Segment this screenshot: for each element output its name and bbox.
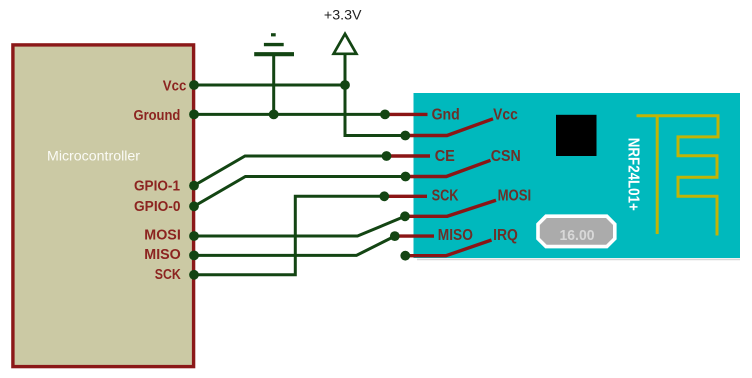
svg-text:CE: CE bbox=[435, 148, 455, 165]
node module MOSI bbox=[400, 211, 410, 221]
junction ground symbol / Ground wire bbox=[269, 110, 279, 120]
pin line Gnd bbox=[385, 113, 428, 116]
pin line MISO bbox=[395, 234, 434, 237]
svg-text:Vcc: Vcc bbox=[493, 107, 518, 124]
svg-text:SCK: SCK bbox=[155, 267, 181, 283]
svg-text:NRF24L01+: NRF24L01+ bbox=[624, 138, 641, 211]
microcontroller U1 body bbox=[13, 45, 194, 367]
svg-text:MOSI: MOSI bbox=[144, 228, 181, 244]
RF chip (black) bbox=[556, 115, 597, 156]
svg-text:MISO: MISO bbox=[438, 227, 473, 244]
node module CE bbox=[382, 151, 392, 161]
wire Vcc: U1 Vcc to +3.3V stem bbox=[195, 84, 345, 87]
node module Vcc bbox=[400, 131, 410, 141]
node module Gnd bbox=[380, 110, 390, 120]
wire GPIO-0 to CSN bbox=[194, 177, 406, 207]
wire +3.3V stem to module Vcc bbox=[345, 36, 405, 136]
node module IRQ bbox=[400, 251, 410, 261]
PCB antenna trace bbox=[637, 116, 719, 236]
module pin leader lines (dark red) bbox=[384, 114, 496, 255]
svg-text:Gnd: Gnd bbox=[432, 107, 460, 124]
node U1 SCK bbox=[189, 270, 199, 280]
svg-text:MOSI: MOSI bbox=[498, 187, 532, 204]
junction +3.3V / Vcc bbox=[340, 80, 350, 90]
module bottom shadow bbox=[417, 258, 740, 260]
NRF24L01+ module body bbox=[414, 93, 741, 258]
svg-text:GPIO-1: GPIO-1 bbox=[134, 178, 180, 194]
node U1 GPIO-1 bbox=[189, 181, 199, 191]
svg-text:Microcontroller: Microcontroller bbox=[47, 149, 141, 164]
svg-text:IRQ: IRQ bbox=[493, 227, 518, 244]
svg-text:Vcc: Vcc bbox=[163, 78, 187, 94]
svg-text:Ground: Ground bbox=[134, 108, 181, 124]
pin line IRQ bbox=[405, 240, 491, 256]
wires (dark green) bbox=[194, 36, 406, 275]
node U1 MISO bbox=[189, 251, 199, 261]
junction dots (dark green) bbox=[189, 80, 410, 280]
node U1 MOSI bbox=[189, 231, 199, 241]
crystal X1 16.00 MHz bbox=[538, 216, 615, 246]
wire SCK to SCK bbox=[194, 196, 384, 274]
wire GPIO-1 to CE bbox=[194, 156, 387, 186]
pin line CE bbox=[387, 154, 431, 157]
wire MOSI to MOSI bbox=[194, 216, 405, 236]
node U1 GPIO-0 bbox=[189, 201, 199, 211]
ground symbol bbox=[254, 35, 294, 54]
svg-text:CSN: CSN bbox=[491, 148, 521, 165]
node module MISO bbox=[390, 231, 400, 241]
wire MISO to MISO bbox=[194, 236, 395, 255]
svg-text:MISO: MISO bbox=[144, 247, 181, 263]
node U1 Ground bbox=[189, 110, 199, 120]
power symbol +3.3V bbox=[324, 6, 362, 54]
svg-text:GPIO-0: GPIO-0 bbox=[134, 199, 181, 215]
pin line MOSI bbox=[405, 200, 496, 216]
wire Ground: U1 Ground to module Gnd bbox=[195, 113, 385, 116]
svg-text:16.00: 16.00 bbox=[560, 227, 595, 244]
wire ground symbol stem bbox=[272, 56, 275, 114]
node U1 Vcc bbox=[189, 80, 199, 90]
svg-text:+3.3V: +3.3V bbox=[324, 6, 362, 22]
node module SCK bbox=[379, 191, 389, 201]
pin line CSN bbox=[406, 160, 491, 176]
pin line SCK bbox=[384, 195, 427, 198]
pin line Vcc bbox=[405, 119, 493, 136]
node module CSN bbox=[401, 172, 411, 182]
svg-text:SCK: SCK bbox=[432, 187, 460, 204]
